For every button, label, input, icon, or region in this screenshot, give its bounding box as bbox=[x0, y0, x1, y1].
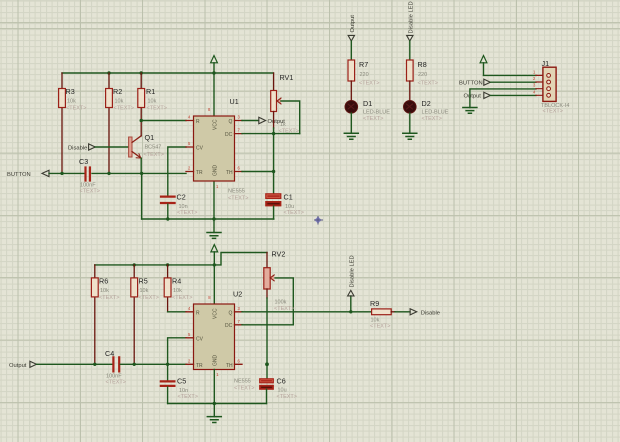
svg-text:Output: Output bbox=[464, 94, 482, 100]
svg-text:<TEXT>: <TEXT> bbox=[178, 394, 198, 400]
svg-text:100k: 100k bbox=[275, 300, 287, 306]
svg-text:<TEXT>: <TEXT> bbox=[279, 129, 299, 135]
svg-text:R8: R8 bbox=[418, 60, 427, 69]
node rail-R5 bbox=[133, 263, 136, 266]
svg-text:C2: C2 bbox=[177, 193, 186, 202]
capacitor C2 bbox=[161, 193, 197, 220]
svg-text:U1: U1 bbox=[230, 97, 239, 106]
diode D2 LED bbox=[404, 99, 449, 133]
svg-text:GND: GND bbox=[213, 165, 219, 177]
svg-text:NE555: NE555 bbox=[228, 189, 245, 195]
svg-text:C1: C1 bbox=[284, 193, 293, 202]
svg-text:CV: CV bbox=[196, 146, 204, 152]
svg-text:<TEXT>: <TEXT> bbox=[144, 152, 164, 158]
svg-text:<TEXT>: <TEXT> bbox=[228, 196, 248, 202]
svg-text:<TEXT>: <TEXT> bbox=[106, 380, 126, 386]
terminal Output (rotated) above R7 bbox=[348, 15, 356, 60]
svg-text:<TEXT>: <TEXT> bbox=[177, 210, 197, 216]
svg-text:1: 1 bbox=[216, 184, 219, 189]
svg-text:DC: DC bbox=[225, 323, 233, 329]
svg-text:NE555: NE555 bbox=[234, 379, 251, 385]
node R5-row bbox=[133, 363, 136, 366]
wire emitter down bbox=[141, 173, 143, 219]
node rail-R2 bbox=[107, 71, 110, 74]
svg-text:4: 4 bbox=[188, 306, 191, 311]
svg-text:<TEXT>: <TEXT> bbox=[234, 386, 254, 392]
svg-text:<TEXT>: <TEXT> bbox=[66, 106, 86, 112]
svg-text:Disable: Disable bbox=[68, 146, 87, 152]
svg-text:10k: 10k bbox=[140, 288, 149, 294]
svg-text:R2: R2 bbox=[113, 87, 122, 96]
svg-text:1k: 1k bbox=[280, 122, 286, 128]
node R3-row bbox=[60, 172, 63, 175]
svg-text:<TEXT>: <TEXT> bbox=[543, 109, 563, 115]
potentiometer RV1 bbox=[271, 73, 300, 193]
resistor R1 bbox=[138, 73, 167, 121]
svg-text:<TEXT>: <TEXT> bbox=[99, 295, 119, 301]
node TH-RV1 bbox=[272, 170, 275, 173]
terminal Output U1 bbox=[259, 117, 285, 125]
svg-text:BUTTON: BUTTON bbox=[459, 81, 483, 87]
power VCC J1 bbox=[480, 56, 487, 76]
resistor R8 bbox=[407, 60, 438, 101]
node TH-RV2 bbox=[265, 362, 269, 366]
svg-text:R9: R9 bbox=[370, 299, 379, 308]
svg-text:GND: GND bbox=[213, 355, 219, 367]
node DisableLED-row bbox=[349, 310, 352, 313]
svg-text:5: 5 bbox=[188, 141, 191, 146]
terminal Disable bbox=[68, 144, 95, 152]
svg-text:R1: R1 bbox=[146, 87, 155, 96]
svg-text:4: 4 bbox=[533, 89, 536, 94]
svg-text:10k: 10k bbox=[100, 288, 109, 294]
wire bottom rail bottom-circuit bbox=[168, 403, 267, 405]
potentiometer RV2 bbox=[264, 250, 295, 365]
svg-text:BC547: BC547 bbox=[145, 145, 162, 151]
node emitter-row bbox=[140, 172, 143, 175]
capacitor C4 bbox=[105, 349, 126, 386]
svg-text:2: 2 bbox=[188, 358, 191, 363]
svg-text:R: R bbox=[196, 119, 200, 125]
svg-text:BUTTON: BUTTON bbox=[7, 172, 31, 178]
terminal Disable LED branch bbox=[348, 255, 356, 312]
svg-text:R4: R4 bbox=[172, 277, 181, 286]
svg-text:C3: C3 bbox=[79, 157, 88, 166]
svg-text:<TEXT>: <TEXT> bbox=[80, 189, 100, 195]
svg-text:R7: R7 bbox=[359, 60, 368, 69]
wire BUTTON row right to TR bbox=[92, 172, 186, 174]
svg-text:TR: TR bbox=[196, 170, 203, 176]
wire Q row U2 to R9 bbox=[242, 311, 372, 313]
svg-text:2: 2 bbox=[533, 76, 536, 81]
terminal Disable bottom bbox=[410, 309, 440, 317]
svg-text:<TEXT>: <TEXT> bbox=[422, 116, 442, 122]
wire DC row U2 to wiper bbox=[242, 278, 293, 325]
node rail-VCC bbox=[212, 71, 215, 74]
svg-text:1: 1 bbox=[533, 69, 536, 74]
resistor R3 bbox=[59, 73, 87, 173]
resistor R4 bbox=[164, 265, 192, 312]
svg-text:Output: Output bbox=[9, 363, 27, 369]
wire BUTTON row left bbox=[49, 172, 85, 174]
svg-text:7: 7 bbox=[238, 319, 241, 324]
svg-text:<TEXT>: <TEXT> bbox=[147, 106, 167, 112]
svg-text:<TEXT>: <TEXT> bbox=[139, 295, 159, 301]
transistor Q1 bbox=[129, 121, 164, 174]
svg-text:<TEXT>: <TEXT> bbox=[274, 306, 294, 312]
wire J1 pin3 to ground bbox=[470, 89, 536, 108]
power VCC U1 bbox=[208, 56, 217, 117]
svg-text:<TEXT>: <TEXT> bbox=[284, 210, 304, 216]
capacitor C3 bbox=[79, 157, 100, 195]
terminal BUTTON bbox=[7, 170, 49, 178]
svg-text:7: 7 bbox=[238, 128, 241, 133]
svg-text:C6: C6 bbox=[277, 377, 286, 386]
resistor R5 bbox=[131, 265, 159, 364]
capacitor C6 polarized bbox=[260, 364, 297, 403]
svg-text:220: 220 bbox=[360, 72, 369, 78]
node DC-RV1 bbox=[272, 132, 275, 135]
wire DC row U1 bbox=[242, 133, 300, 135]
svg-text:220: 220 bbox=[418, 72, 427, 78]
resistor R9 bbox=[370, 299, 410, 330]
ground top-circuit bbox=[207, 181, 221, 238]
svg-text:Disable: Disable bbox=[421, 310, 440, 316]
svg-text:3: 3 bbox=[238, 306, 241, 311]
ground J1 bbox=[463, 108, 477, 114]
terminal Disable LED (rotated) above R8 bbox=[407, 1, 415, 60]
wire top VCC rail bbox=[62, 72, 273, 74]
svg-text:<TEXT>: <TEXT> bbox=[359, 81, 379, 87]
svg-text:3: 3 bbox=[238, 115, 241, 120]
svg-text:1: 1 bbox=[216, 372, 219, 377]
svg-text:10k: 10k bbox=[115, 99, 124, 105]
svg-text:Q1: Q1 bbox=[145, 133, 155, 142]
terminal Output J1 bbox=[464, 92, 491, 99]
svg-text:LED-BLUE: LED-BLUE bbox=[422, 110, 449, 116]
svg-text:<TEXT>: <TEXT> bbox=[277, 394, 297, 400]
svg-text:DC: DC bbox=[225, 132, 233, 138]
wire Q output U1 bbox=[242, 120, 259, 122]
connector J1 bbox=[533, 59, 569, 115]
svg-text:RV1: RV1 bbox=[280, 73, 294, 82]
svg-text:TH: TH bbox=[226, 170, 233, 176]
diode D1 LED bbox=[345, 99, 390, 133]
svg-text:Q: Q bbox=[229, 119, 233, 125]
wire collector node to pin R bbox=[141, 120, 186, 122]
node R2-row bbox=[107, 172, 110, 175]
wire bottom rail top-circuit bbox=[142, 218, 274, 220]
capacitor C1 polarized bbox=[266, 193, 304, 220]
svg-text:Disable LED: Disable LED bbox=[409, 1, 415, 33]
ground D1 bbox=[344, 133, 358, 139]
svg-text:D1: D1 bbox=[363, 99, 372, 108]
svg-text:8: 8 bbox=[208, 295, 211, 300]
wire CV branch U2 bbox=[168, 338, 186, 365]
wire Disable to base bbox=[95, 146, 129, 148]
wire bottom VCC rail bbox=[95, 253, 267, 265]
wire CV branch bbox=[168, 147, 186, 195]
node rail-R4 bbox=[166, 263, 169, 266]
svg-text:Q: Q bbox=[229, 310, 233, 316]
svg-text:5: 5 bbox=[188, 332, 191, 337]
svg-text:R5: R5 bbox=[139, 277, 148, 286]
wire J1 pin2 bbox=[490, 81, 536, 83]
svg-text:R: R bbox=[196, 310, 200, 316]
ground U2 bbox=[207, 370, 221, 423]
svg-text:VCC: VCC bbox=[213, 119, 219, 130]
node CV-C5-row bbox=[166, 363, 169, 366]
ground D2 bbox=[403, 133, 417, 139]
svg-text:3: 3 bbox=[533, 83, 536, 88]
svg-text:<TEXT>: <TEXT> bbox=[418, 81, 438, 87]
svg-text:D2: D2 bbox=[422, 99, 431, 108]
wire R4 to pin R U2 bbox=[168, 311, 186, 313]
svg-text:LED-BLUE: LED-BLUE bbox=[363, 110, 390, 116]
svg-text:<TEXT>: <TEXT> bbox=[172, 295, 192, 301]
resistor R2 bbox=[106, 73, 134, 173]
svg-text:U2: U2 bbox=[233, 290, 242, 299]
node rail-R1 bbox=[140, 71, 143, 74]
svg-text:VCC: VCC bbox=[213, 308, 219, 319]
node gnd-rail2 bbox=[213, 402, 216, 405]
resistor R6 bbox=[91, 265, 119, 364]
svg-text:10u: 10u bbox=[278, 388, 287, 394]
svg-text:4: 4 bbox=[188, 115, 191, 120]
wire J1 pin1 bbox=[484, 74, 537, 76]
svg-text:TH: TH bbox=[226, 363, 233, 369]
capacitor C5 bbox=[161, 364, 198, 403]
op-amp/timer U1 NE555 bbox=[186, 97, 248, 202]
node C2-rail bbox=[166, 217, 169, 220]
terminal BUTTON J1 bbox=[459, 79, 490, 86]
svg-text:CV: CV bbox=[196, 336, 204, 342]
wire C4 to TR U2 bbox=[120, 363, 186, 365]
svg-text:Output: Output bbox=[350, 15, 356, 33]
svg-text:TR: TR bbox=[196, 363, 203, 369]
svg-text:RV2: RV2 bbox=[272, 250, 286, 259]
wire J1 pin4 bbox=[490, 94, 536, 96]
svg-text:J1: J1 bbox=[542, 59, 550, 68]
svg-text:<TEXT>: <TEXT> bbox=[363, 116, 383, 122]
wire Output row to C4 bbox=[37, 363, 113, 365]
svg-text:<TEXT>: <TEXT> bbox=[114, 106, 134, 112]
resistor R7 bbox=[348, 60, 379, 101]
svg-text:6: 6 bbox=[238, 166, 241, 171]
node collector-R1 bbox=[140, 119, 143, 122]
svg-text:R6: R6 bbox=[99, 277, 108, 286]
svg-text:C5: C5 bbox=[177, 377, 186, 386]
terminal Output bottom-left bbox=[9, 361, 37, 369]
node R6-row bbox=[93, 363, 96, 366]
marker origin bbox=[315, 217, 323, 225]
svg-text:10k: 10k bbox=[173, 288, 182, 294]
svg-text:8: 8 bbox=[208, 107, 211, 112]
svg-text:10k: 10k bbox=[67, 99, 76, 105]
power VCC U2 bbox=[208, 245, 217, 304]
wire TH row U1 bbox=[242, 171, 274, 173]
op-amp/timer U2 NE555 bbox=[186, 290, 254, 392]
svg-text:<TEXT>: <TEXT> bbox=[370, 324, 390, 330]
svg-text:10k: 10k bbox=[148, 99, 157, 105]
svg-text:2: 2 bbox=[188, 166, 191, 171]
node rail-VCC2 bbox=[213, 263, 216, 266]
svg-text:C4: C4 bbox=[105, 349, 114, 358]
node gnd-rail bbox=[212, 217, 215, 220]
svg-text:R3: R3 bbox=[66, 87, 75, 96]
svg-text:Disable LED: Disable LED bbox=[350, 255, 356, 287]
svg-text:6: 6 bbox=[238, 358, 241, 363]
